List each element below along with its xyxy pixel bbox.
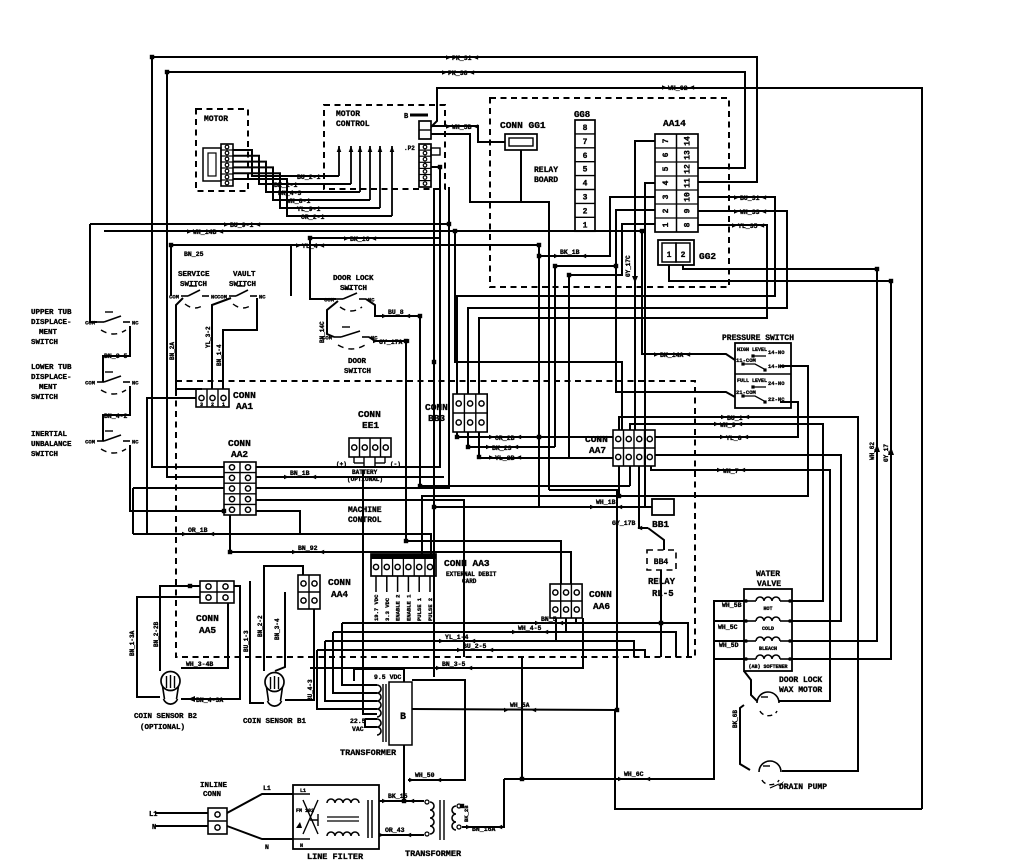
wire AA6 col2 down (565, 618, 567, 632)
svg-text:BB1: BB1 (652, 519, 669, 530)
svg-text:B: B (400, 712, 406, 723)
wire AA5 tl wire BN_2-2B (160, 586, 200, 671)
svg-text:BN_4-3: BN_4-3 (278, 190, 302, 197)
wire motor wire WH_8-1 (233, 167, 370, 200)
svg-text:WH_7: WH_7 (723, 468, 739, 475)
label BN_3-4 (274, 618, 281, 640)
label BN_14C (319, 321, 326, 343)
svg-text:AA4: AA4 (331, 589, 348, 600)
water valve coil (AB) SOFTENER (744, 655, 792, 670)
svg-text:DOOR: DOOR (348, 358, 367, 366)
svg-text:13: 13 (684, 150, 693, 160)
label BK_1-1 (274, 182, 298, 189)
label SERVICE SWITCH 1 (178, 271, 210, 279)
svg-text:AA5: AA5 (199, 625, 216, 636)
motor dashed box (196, 109, 248, 191)
connector CONN AA6 (550, 584, 582, 618)
svg-text:COIN SENSOR B2: COIN SENSOR B2 (134, 713, 198, 721)
svg-text:L1: L1 (263, 785, 271, 792)
wire service COM down BN_2A (176, 298, 202, 389)
svg-text:ENABLE 1: ENABLE 1 (405, 594, 412, 621)
wire N diag (227, 826, 293, 839)
door switch (322, 327, 378, 349)
svg-text:ENABLE 2: ENABLE 2 (395, 595, 402, 621)
svg-text:TRANSFORMER: TRANSFORMER (405, 849, 462, 859)
label DOOR LOCK WAX MOTOR t1 (779, 676, 822, 685)
battery bracket (336, 457, 401, 468)
water valve coil BLEACH (744, 637, 792, 652)
svg-text:CONN: CONN (203, 791, 221, 799)
svg-text:3.3 VDC: 3.3 VDC (384, 597, 391, 621)
label YL_1-4 (439, 634, 475, 643)
wire AA2 bottom BN_92 (230, 515, 571, 584)
label CONN BB3 t1 (425, 402, 448, 413)
label CONN AA6 t2 (593, 601, 610, 612)
label TRANSFORMER 1 title (340, 748, 397, 758)
label BN_25 (184, 251, 204, 258)
wire AA7 bottom pin2 wire (629, 466, 631, 486)
connector AA14 (655, 134, 698, 232)
svg-text:N: N (265, 844, 269, 851)
wire door lock COM feed (310, 238, 336, 299)
wire YL_2B row (479, 457, 613, 459)
svg-text:19.7 VDC: 19.7 VDC (373, 594, 380, 621)
label WH_7 (717, 468, 745, 475)
svg-text:2: 2 (583, 207, 588, 216)
svg-text:VALVE: VALVE (757, 580, 781, 589)
label WH_62 riser label (869, 442, 876, 460)
svg-text:11-COM: 11-COM (736, 357, 757, 364)
wire valve left stub3 (714, 640, 744, 642)
wire T1 tap2 (365, 719, 377, 727)
svg-text:WH_5B: WH_5B (722, 602, 742, 609)
svg-text:WH_8-1: WH_8-1 (287, 198, 311, 205)
label BN_5 (535, 616, 563, 625)
wire inertial NC wire (130, 445, 224, 511)
wire WH_4-5 row (333, 632, 676, 657)
label N filter (265, 844, 269, 851)
svg-text:BN_3-4: BN_3-4 (274, 618, 281, 640)
GY_17C arrow (632, 276, 638, 283)
svg-text:.P2: .P2 (404, 145, 415, 152)
svg-text:3: 3 (200, 402, 203, 408)
AA3 pin ENABLE 1 stub (407, 576, 409, 592)
svg-text:DRAIN PUMP: DRAIN PUMP (779, 783, 827, 792)
svg-text:WAX MOTOR: WAX MOTOR (779, 686, 822, 695)
wire motor wire BU_2-1 (233, 150, 339, 176)
wire OR_1B row2 (133, 534, 431, 554)
wire T1 primary 3 (325, 641, 377, 701)
svg-text:GG2: GG2 (699, 251, 716, 262)
label WH_50 (409, 772, 441, 782)
label WH_9 (714, 422, 742, 429)
wire AA7 mid row (655, 455, 841, 621)
label COIN SENSOR B2 (134, 713, 198, 721)
svg-text:SWITCH: SWITCH (31, 451, 58, 459)
svg-text:DOOR LOCK: DOOR LOCK (779, 676, 822, 685)
svg-text:BN_4-2: BN_4-2 (104, 413, 128, 420)
svg-text:GY_17A: GY_17A (379, 339, 403, 346)
svg-text:N: N (300, 843, 303, 849)
svg-text:PK_38: PK_38 (448, 70, 468, 77)
connector inline conn (208, 808, 227, 834)
svg-text:MACHINE: MACHINE (348, 506, 382, 515)
svg-text:BK_1B: BK_1B (560, 249, 580, 256)
svg-text:2: 2 (681, 251, 686, 260)
label BB1 title (652, 519, 669, 530)
label CONN AA5 t2 (199, 625, 216, 636)
wire BN_14C wire (327, 301, 338, 337)
wire vault box wires (290, 245, 292, 296)
svg-text:WH_5C: WH_5C (718, 624, 738, 631)
svg-text:CONN: CONN (425, 402, 448, 413)
label BK_6B (732, 710, 739, 728)
svg-text:14: 14 (684, 136, 693, 146)
label DOOR SWITCH 1 (348, 358, 367, 366)
pressure switch box (735, 343, 791, 408)
label N label (152, 824, 156, 832)
svg-text:14-NC: 14-NC (768, 363, 785, 370)
svg-text:AA2: AA2 (231, 449, 248, 460)
svg-text:NC: NC (132, 380, 139, 387)
svg-text:WH_14B: WH_14B (193, 229, 217, 236)
svg-text:AA6: AA6 (593, 601, 610, 612)
svg-text:21-COM: 21-COM (736, 389, 757, 396)
label CONN BB3 t2 (428, 413, 445, 424)
wire pressure 14-NC return (422, 366, 808, 554)
svg-text:GY_17B: GY_17B (612, 520, 636, 527)
motor control pin 6 (390, 146, 395, 216)
wire BB4 bottom wire (660, 570, 662, 657)
svg-text:OR_1B: OR_1B (188, 527, 208, 534)
drain pump symbol (759, 761, 781, 785)
label BK_2B (463, 805, 470, 822)
label BK_23 (486, 445, 518, 452)
label WH_1B (590, 499, 622, 509)
wire T1 secondary right (408, 680, 465, 780)
label VAULT SWITCH 2 (229, 281, 256, 289)
label CONN AA7 t1 (585, 434, 608, 445)
label BN_1B (284, 470, 316, 479)
wire BB3 col2 down (467, 432, 469, 447)
svg-text:CONN GG1: CONN GG1 (500, 120, 546, 131)
svg-text:SWITCH: SWITCH (229, 281, 256, 289)
svg-text:OR_43: OR_43 (385, 827, 405, 834)
connector CONN EE1 (349, 438, 391, 457)
pressure switch upper contacts (736, 347, 785, 370)
svg-text:TRANSFORMER: TRANSFORMER (340, 748, 397, 758)
motor control pin 3 (358, 146, 363, 192)
label BB4 title (654, 558, 669, 567)
svg-text:WH_4-5: WH_4-5 (518, 625, 542, 632)
wire T1 primary 1 (342, 623, 377, 685)
label WH_6C (618, 771, 650, 781)
wire B1 right wire BN_3-4 (275, 592, 285, 671)
label BN_1-4 (216, 344, 223, 366)
connector CONN BB3 (453, 394, 487, 432)
label BN_4-2 (104, 413, 128, 420)
svg-text:11: 11 (684, 178, 693, 188)
label MACHINE CONTROL 2 (348, 516, 382, 525)
wire CONN AA1 left wire (147, 398, 196, 534)
pressure switch lower contacts (736, 378, 785, 403)
wire AA14 pin9 row (468, 211, 787, 394)
inertial unbalance switch label (31, 431, 72, 459)
svg-text:BK_6B: BK_6B (732, 710, 739, 728)
wire AA2 row2 right BN_1B (256, 476, 444, 478)
svg-text:10: 10 (684, 192, 693, 202)
wire WH_62 top run (431, 88, 922, 809)
coin sensor B2 symbol (161, 672, 180, 705)
wire L1 wire (155, 812, 208, 814)
svg-text:BN_4-3A: BN_4-3A (196, 697, 223, 704)
svg-text:AA14: AA14 (663, 118, 686, 129)
label OPTIONAL B2 (140, 724, 185, 732)
wire AA2 row4 right (256, 500, 464, 657)
motor control pin 5 (378, 146, 383, 208)
svg-text:COIN SENSOR B1: COIN SENSOR B1 (243, 718, 307, 726)
svg-text:2: 2 (211, 402, 214, 408)
svg-text:COM: COM (85, 439, 96, 446)
label BK_15 (382, 793, 414, 803)
wire BB3 col3 down (478, 432, 480, 457)
svg-text:SWITCH: SWITCH (180, 281, 207, 289)
label CONN AA7 t2 (589, 445, 606, 456)
wire BN_5 row (342, 623, 688, 657)
svg-text:SWITCH: SWITCH (344, 368, 371, 376)
svg-text:BU_9-1: BU_9-1 (230, 222, 254, 229)
label EXTERNAL DEBIT (446, 571, 497, 578)
inertial unbalance switch (85, 431, 139, 453)
svg-text:CONN: CONN (196, 613, 219, 624)
svg-text:RELAY: RELAY (534, 166, 558, 175)
AA3 pin PULSE 2 stub (429, 576, 431, 592)
label BU_1-3 (243, 630, 250, 652)
pressure switch terminal squares (741, 354, 766, 403)
svg-text:LOWER TUB: LOWER TUB (31, 364, 72, 372)
label RELAY BOARD 1 (534, 166, 558, 175)
svg-text:PRESSURE SWITCH: PRESSURE SWITCH (722, 334, 794, 343)
label L1 label (149, 811, 157, 819)
svg-text:WH_5D: WH_5D (719, 642, 739, 649)
wire AA6 col1 down (555, 618, 557, 641)
label YL_8 (720, 435, 748, 442)
line filter internals (293, 788, 372, 849)
svg-text:BN_2-2: BN_2-2 (257, 615, 264, 637)
svg-text:CARD: CARD (462, 578, 477, 585)
svg-text:4: 4 (662, 180, 671, 185)
label GY_17A (373, 339, 409, 346)
label BATTERY (352, 469, 378, 476)
wire GG2 pin2 run (683, 265, 877, 641)
connector GG8 (575, 120, 595, 231)
wire BK_16 row (310, 187, 440, 238)
BN_4-3A arrow (188, 696, 195, 702)
wire AA14 pin10 row (457, 197, 775, 394)
label BN_2-2B (153, 621, 160, 647)
label CONN AA5 t1 (196, 613, 219, 624)
connector CONN AA4 (298, 575, 320, 609)
label BN_2A (169, 342, 176, 360)
AA3 pin 19.7 VDC stub (375, 576, 377, 592)
svg-text:YL_8: YL_8 (726, 435, 742, 442)
coin sensor B1 symbol (265, 673, 284, 707)
label SERVICE SWITCH 2 (180, 281, 207, 289)
svg-text:CONN: CONN (228, 438, 251, 449)
label BN_4-3A (196, 697, 223, 704)
svg-text:YL_2B: YL_2B (495, 455, 515, 462)
wire WH_14B row (104, 231, 735, 360)
wire GL lower wire (431, 134, 549, 490)
wire valve left stub2 (714, 620, 744, 622)
svg-text:BB3: BB3 (428, 413, 445, 424)
svg-text:9.5 VDC: 9.5 VDC (374, 674, 401, 681)
label WH_62 (662, 85, 694, 92)
svg-text:OR_2B: OR_2B (495, 435, 515, 442)
wire OR_2B row (457, 436, 613, 438)
riser arrow 891 (888, 447, 894, 455)
connector CONN AA1 (196, 389, 229, 408)
wire BU_8 wire (366, 299, 630, 486)
svg-text:CONN: CONN (233, 390, 256, 401)
label COIN SENSOR B1 (243, 718, 307, 726)
svg-text:(OPTIONAL): (OPTIONAL) (347, 476, 383, 483)
svg-text:BK_1-1: BK_1-1 (274, 182, 298, 189)
wire GY_17A wire (369, 337, 561, 584)
label BU_2-1 (297, 174, 321, 181)
label CONN AA1 t2 (236, 401, 253, 412)
connector CONN AA5 (200, 581, 234, 603)
wire AA14 pin7 / GY_17C wire (635, 141, 655, 430)
label DRAIN PUMP title (779, 783, 827, 792)
label WH_5A (504, 702, 536, 712)
motor control pin 4 (368, 146, 373, 200)
wire BK_23 row (468, 446, 555, 448)
svg-text:EE1: EE1 (362, 420, 379, 431)
svg-text:WH_50: WH_50 (415, 772, 435, 779)
connector P2 (419, 144, 440, 187)
wire BK_15 wire (379, 800, 424, 802)
label MOTOR title (204, 115, 228, 124)
svg-text:CONN: CONN (585, 434, 608, 445)
label BU_2-5 (457, 643, 493, 652)
label WH_5B (446, 124, 478, 131)
riser arrow 877 (874, 444, 880, 452)
label MOTOR CONTROL title 2 (336, 120, 370, 129)
wire CONN GG1 drop wire (520, 150, 522, 202)
label CONN EE1 t2 (362, 420, 379, 431)
label CONN AA1 t1 (233, 390, 256, 401)
connector CONN AA7 (613, 430, 655, 466)
svg-text:NC: NC (132, 320, 139, 327)
label BN_16A (466, 825, 502, 833)
connector GG2 (658, 240, 694, 265)
svg-text:(-): (-) (390, 461, 401, 468)
label VAULT SWITCH 1 (233, 271, 256, 279)
label BN_3-5 (436, 661, 472, 670)
label AA3 pin PULSE 1 (416, 597, 423, 621)
svg-text:CONTROL: CONTROL (348, 516, 382, 525)
svg-text:YL_3-2: YL_3-2 (205, 326, 212, 348)
lower tub displacement switch (85, 372, 139, 394)
wire AA4 right down BU_4-3 (285, 609, 314, 700)
connector CONN GG1 (505, 134, 537, 150)
label WH_5B valve (722, 602, 742, 609)
label YL_35 (732, 223, 764, 230)
label DOOR LOCK SWITCH 2 (340, 285, 367, 293)
label 22.5 (350, 718, 366, 725)
label RELAY BOARD 2 (534, 176, 558, 185)
svg-text:WATER: WATER (756, 570, 780, 579)
svg-text:COLD: COLD (762, 626, 774, 632)
wire GG2 pin1 run (669, 265, 891, 659)
label BU_9-1 (224, 222, 260, 229)
wire battery feed vertical (363, 470, 377, 714)
svg-text:BN_3-5: BN_3-5 (104, 353, 128, 360)
svg-text:VAC: VAC (352, 726, 364, 733)
label WATER VALVE t1 (756, 570, 780, 579)
svg-text:MOTOR: MOTOR (336, 110, 360, 119)
motor connector (203, 144, 233, 186)
svg-text:BU_2-5: BU_2-5 (463, 643, 487, 650)
svg-text:RL-5: RL-5 (652, 589, 674, 599)
wire motor wire BK_1-1 (233, 156, 351, 184)
label GY_17B (612, 520, 642, 530)
svg-text:PULSE 2: PULSE 2 (427, 598, 434, 621)
svg-text:BN_1-3A: BN_1-3A (129, 630, 136, 656)
svg-text:YL_9-1: YL_9-1 (297, 206, 321, 213)
label DOOR SWITCH 2 (344, 368, 371, 376)
upper tub displacement switch (85, 312, 139, 334)
relay BB1 (652, 499, 674, 515)
svg-text:WH_1B: WH_1B (596, 499, 616, 506)
wire AA7 pin1 drop (618, 466, 620, 496)
svg-text:UPPER TUB: UPPER TUB (31, 309, 72, 317)
svg-text:MENT: MENT (39, 384, 58, 392)
svg-text:NC: NC (132, 439, 139, 446)
label PK_38 (442, 70, 474, 77)
wire central vertical 3 (256, 224, 449, 488)
label TRANSFORMER 2 title (405, 849, 462, 859)
svg-text:CONN: CONN (589, 589, 612, 600)
wire WH_1B row (538, 245, 540, 507)
label BU_8 (382, 309, 410, 318)
label CONN AA4 t1 (328, 577, 351, 588)
wire YL_8 row (655, 402, 798, 437)
label GY_17 riser label (883, 444, 890, 462)
wire AA2 row3 left (133, 487, 224, 489)
svg-text:2: 2 (662, 208, 671, 213)
label 9.5 VDC (374, 674, 401, 681)
svg-text:BN_25: BN_25 (184, 251, 204, 258)
label AA3 pin PULSE 2 (427, 598, 434, 621)
svg-text:BU_1-3: BU_1-3 (243, 630, 250, 652)
service switch (169, 286, 218, 308)
svg-text:BN_3-5: BN_3-5 (442, 661, 466, 668)
svg-text:7: 7 (662, 138, 671, 143)
wire T1 bottom drop (403, 745, 405, 801)
wire GY_17B drop (639, 466, 648, 528)
label YL_9-1 (297, 206, 321, 213)
wire T1 tap 22.5 (365, 718, 377, 720)
label GG8 title (574, 110, 590, 120)
label OR_1B (182, 527, 214, 536)
wire GY_17B diag to BB4 (648, 528, 664, 550)
svg-text:(OPTIONAL): (OPTIONAL) (140, 724, 185, 732)
vault switch (217, 286, 266, 308)
svg-text:5: 5 (583, 166, 588, 175)
wire AA5 bl wire BN_1-3A (137, 597, 200, 697)
